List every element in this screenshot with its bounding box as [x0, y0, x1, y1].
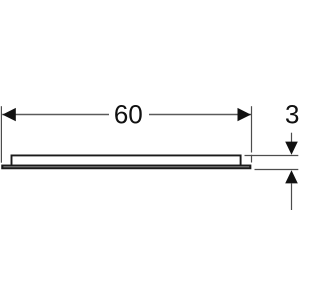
- arrowhead left: [2, 108, 15, 121]
- dimension line 60 (right segment): [149, 114, 251, 116]
- extension line right (dashed): [251, 106, 253, 152]
- mirror plate (60 cm wide bottom bar): [2, 166, 250, 169]
- mounting profile (top box): [12, 155, 241, 165]
- arrowhead down: [285, 142, 298, 155]
- extension line bottom (depth): [255, 169, 299, 171]
- arrowhead up: [285, 170, 298, 183]
- depth dimension upper stub: [291, 133, 293, 142]
- label 3: [286, 105, 298, 123]
- extension line left: [0, 106, 2, 163]
- depth dimension lower stub: [291, 183, 293, 210]
- dimension line 60 (left segment): [2, 114, 109, 116]
- arrowhead right: [238, 108, 251, 121]
- extension line top (depth): [245, 155, 299, 157]
- label 60: [115, 105, 142, 123]
